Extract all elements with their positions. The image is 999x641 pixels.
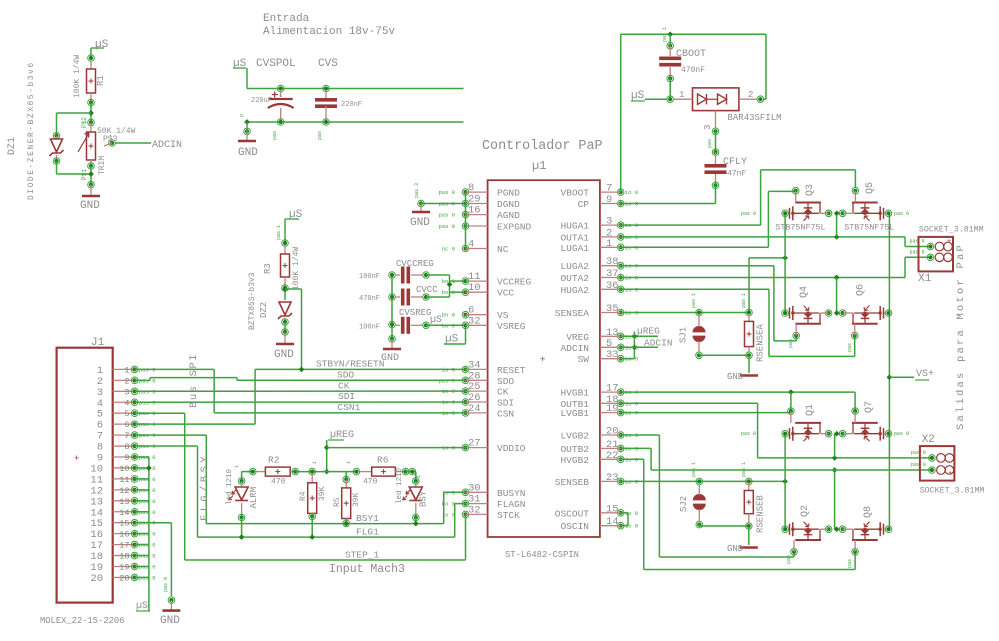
svg-text:TRIM: TRIM xyxy=(98,156,107,175)
svg-text:32: 32 xyxy=(468,315,481,327)
svg-text:RESET: RESET xyxy=(497,365,526,376)
svg-text:pas 0: pas 0 xyxy=(894,211,909,217)
svg-text:pas 1: pas 1 xyxy=(276,225,282,240)
svg-text:20: 20 xyxy=(90,573,103,585)
svg-text:STCK: STCK xyxy=(497,510,520,521)
svg-text:GND: GND xyxy=(238,147,258,159)
svg-text:1: 1 xyxy=(312,461,318,464)
svg-text:µS: µS xyxy=(136,601,148,612)
svg-text:220nF: 220nF xyxy=(341,101,362,109)
svg-text:µS: µS xyxy=(631,90,645,102)
svg-text:SOCKET_3.81MM: SOCKET_3.81MM xyxy=(920,487,985,496)
svg-text:SDI: SDI xyxy=(497,398,514,409)
svg-text:pas 0: pas 0 xyxy=(163,577,169,592)
svg-text:13: 13 xyxy=(119,497,129,507)
svg-text:39K: 39K xyxy=(318,486,327,501)
svg-text:4: 4 xyxy=(124,398,129,408)
svg-text:BSY: BSY xyxy=(419,490,429,507)
svg-text:3: 3 xyxy=(703,125,713,130)
svg-text:100nF: 100nF xyxy=(359,323,380,331)
svg-text:R2: R2 xyxy=(268,455,280,466)
svg-text:pas: pas xyxy=(788,339,794,348)
svg-text:OUTA2: OUTA2 xyxy=(560,273,589,284)
svg-text:17: 17 xyxy=(606,383,619,395)
svg-text:R3: R3 xyxy=(263,263,273,274)
svg-text:X2: X2 xyxy=(922,434,935,446)
svg-text:38: 38 xyxy=(606,256,619,268)
svg-text:Bus SPI: Bus SPI xyxy=(188,353,200,408)
svg-text:BUSYN: BUSYN xyxy=(497,488,526,499)
svg-text:24: 24 xyxy=(468,403,481,415)
svg-text:470: 470 xyxy=(363,478,378,487)
svg-text:23: 23 xyxy=(606,472,619,484)
svg-text:19: 19 xyxy=(606,403,619,415)
svg-text:Q8: Q8 xyxy=(863,506,874,518)
svg-text:RSENSEB: RSENSEB xyxy=(756,495,766,533)
svg-text:µS: µS xyxy=(445,334,459,346)
svg-text:HUGA2: HUGA2 xyxy=(560,285,589,296)
svg-text:100K 1/4W: 100K 1/4W xyxy=(292,247,301,290)
svg-text:37: 37 xyxy=(606,268,619,280)
svg-text:100nF: 100nF xyxy=(359,273,380,281)
svg-text:VCC: VCC xyxy=(497,288,514,299)
svg-text:STEP_1: STEP_1 xyxy=(345,550,380,561)
svg-text:CK: CK xyxy=(497,387,509,398)
svg-text:1: 1 xyxy=(679,90,684,100)
svg-text:30: 30 xyxy=(468,482,481,494)
svg-text:Salidas para Motor PaP: Salidas para Motor PaP xyxy=(955,243,967,430)
svg-text:led 1210: led 1210 xyxy=(226,468,234,505)
svg-text:SDO: SDO xyxy=(497,376,514,387)
svg-text:CSN: CSN xyxy=(497,408,514,419)
svg-text:16: 16 xyxy=(468,205,481,217)
svg-text:8: 8 xyxy=(124,442,129,452)
svg-text:SW: SW xyxy=(578,354,590,365)
svg-text:ADCIN: ADCIN xyxy=(152,140,182,151)
svg-text:FLG/BSY: FLG/BSY xyxy=(199,453,211,521)
svg-text:Q5: Q5 xyxy=(865,182,876,194)
svg-text:3: 3 xyxy=(606,216,612,228)
svg-text:Controlador PaP: Controlador PaP xyxy=(482,139,603,154)
svg-text:pas 0: pas 0 xyxy=(909,239,924,245)
svg-text:SOCKET_3.81MM: SOCKET_3.81MM xyxy=(919,226,984,235)
svg-text:ADCIN: ADCIN xyxy=(560,343,589,354)
svg-text:SDI: SDI xyxy=(338,391,355,402)
svg-text:39K: 39K xyxy=(352,492,361,507)
svg-text:BZTX85S-b3v3: BZTX85S-b3v3 xyxy=(248,272,257,330)
svg-text:20: 20 xyxy=(119,573,129,583)
svg-text:OUTB2: OUTB2 xyxy=(560,444,589,455)
svg-text:OSCIN: OSCIN xyxy=(560,521,589,532)
svg-text:LVGB1: LVGB1 xyxy=(560,408,589,419)
svg-text:pas 0: pas 0 xyxy=(911,462,926,468)
svg-text:18: 18 xyxy=(119,552,129,562)
svg-text:pas: pas xyxy=(847,559,853,568)
svg-text:VDDIO: VDDIO xyxy=(497,443,526,454)
svg-text:pas 1: pas 1 xyxy=(741,462,747,477)
svg-text:bo 0: bo 0 xyxy=(442,322,455,329)
svg-text:Input Mach3: Input Mach3 xyxy=(329,563,405,576)
svg-text:CVCCREG: CVCCREG xyxy=(396,259,434,269)
svg-text:9: 9 xyxy=(606,194,612,206)
svg-text:GND: GND xyxy=(80,200,100,212)
svg-text:P$3: P$3 xyxy=(103,135,118,144)
svg-text:SJ2: SJ2 xyxy=(679,496,689,512)
svg-text:22: 22 xyxy=(606,450,619,462)
svg-text:15: 15 xyxy=(606,503,619,515)
svg-text:470nF: 470nF xyxy=(681,66,705,75)
svg-text:P$1: P$1 xyxy=(81,169,88,180)
svg-text:VS+: VS+ xyxy=(916,369,934,380)
svg-text:+: + xyxy=(540,355,545,365)
svg-text:R4: R4 xyxy=(299,491,308,501)
svg-text:1: 1 xyxy=(606,238,612,250)
svg-text:pas 1: pas 1 xyxy=(691,293,697,308)
svg-text:ADCIN: ADCIN xyxy=(644,338,673,349)
svg-text:NC: NC xyxy=(497,244,509,255)
svg-text:EXPGND: EXPGND xyxy=(497,222,532,233)
svg-text:CVS: CVS xyxy=(318,58,338,70)
svg-text:SJ1: SJ1 xyxy=(679,327,689,343)
svg-text:DZ2: DZ2 xyxy=(259,302,269,318)
svg-text:LVGB2: LVGB2 xyxy=(560,431,589,442)
svg-text:pas 0: pas 0 xyxy=(894,431,909,437)
svg-text:VREG: VREG xyxy=(566,332,589,343)
svg-text:µS: µS xyxy=(430,315,442,326)
svg-text:R1: R1 xyxy=(96,75,106,86)
svg-text:32: 32 xyxy=(468,504,481,516)
svg-text:P$2: P$2 xyxy=(81,117,88,128)
svg-text:Q2: Q2 xyxy=(800,505,811,517)
svg-text:27: 27 xyxy=(468,438,481,450)
svg-text:CSN1: CSN1 xyxy=(338,402,361,413)
svg-text:pas 0: pas 0 xyxy=(438,212,455,219)
svg-text:bn 0: bn 0 xyxy=(442,312,455,319)
svg-text:VBOOT: VBOOT xyxy=(560,188,589,199)
svg-text:ST-L6482-CSPIN: ST-L6482-CSPIN xyxy=(505,550,579,560)
svg-text:CFLY: CFLY xyxy=(723,157,747,168)
svg-text:Q3: Q3 xyxy=(805,184,816,196)
svg-text:FLG1: FLG1 xyxy=(356,527,379,538)
svg-text:GND: GND xyxy=(160,615,180,627)
svg-text:+: + xyxy=(947,238,951,246)
svg-text:Q6: Q6 xyxy=(856,284,867,296)
svg-text:Alimentacion 18v-75v: Alimentacion 18v-75v xyxy=(263,26,395,38)
svg-text:DZ1: DZ1 xyxy=(7,137,18,155)
svg-text:SDO: SDO xyxy=(337,370,354,381)
svg-text:pas 0: pas 0 xyxy=(741,211,756,217)
svg-text:GND: GND xyxy=(274,349,294,361)
svg-text:GND: GND xyxy=(410,217,430,229)
svg-text:OUTA1: OUTA1 xyxy=(560,232,589,243)
svg-text:10: 10 xyxy=(468,282,481,294)
svg-text:1: 1 xyxy=(234,465,240,468)
svg-text:pas 0: pas 0 xyxy=(741,431,756,437)
svg-text:STB75NF75L: STB75NF75L xyxy=(775,223,825,233)
svg-text:X1: X1 xyxy=(918,273,932,285)
svg-text:pas: pas xyxy=(847,343,853,352)
svg-text:BAR43SFILM: BAR43SFILM xyxy=(728,113,782,123)
svg-text:5: 5 xyxy=(124,409,129,419)
svg-text:pas 1: pas 1 xyxy=(741,293,747,308)
svg-text:STBYN/RESETN: STBYN/RESETN xyxy=(316,359,384,370)
svg-text:1: 1 xyxy=(416,475,422,478)
svg-text:17: 17 xyxy=(119,541,129,551)
svg-text:12: 12 xyxy=(119,486,129,496)
svg-text:47nF: 47nF xyxy=(727,170,746,179)
svg-text:SENSEA: SENSEA xyxy=(555,308,590,319)
svg-text:19: 19 xyxy=(119,563,129,573)
svg-text:BSY1: BSY1 xyxy=(356,513,379,524)
svg-text:µS: µS xyxy=(95,39,109,51)
svg-text:FLAGN: FLAGN xyxy=(497,499,526,510)
svg-text:DGND: DGND xyxy=(497,199,520,210)
svg-text:VCCREG: VCCREG xyxy=(497,277,532,288)
svg-text:nc 0: nc 0 xyxy=(442,246,455,253)
svg-text:33: 33 xyxy=(606,349,619,361)
svg-text:Entrada: Entrada xyxy=(263,13,310,25)
svg-text:pas 0: pas 0 xyxy=(911,450,926,456)
svg-text:pas 0: pas 0 xyxy=(438,189,455,196)
svg-text:pas 1: pas 1 xyxy=(662,27,668,42)
svg-text:220uF: 220uF xyxy=(251,97,272,105)
svg-text:+: + xyxy=(74,454,79,464)
svg-text:5: 5 xyxy=(606,338,612,350)
svg-text:4: 4 xyxy=(468,239,474,251)
svg-text:CVSREG: CVSREG xyxy=(399,308,431,318)
svg-text:VSREG: VSREG xyxy=(497,321,526,332)
svg-text:6: 6 xyxy=(124,420,129,430)
svg-text:AGND: AGND xyxy=(497,210,520,221)
svg-text:8: 8 xyxy=(468,182,474,194)
svg-text:GND: GND xyxy=(727,372,743,382)
svg-text:pas 0: pas 0 xyxy=(909,249,924,255)
svg-text:9: 9 xyxy=(124,453,129,463)
svg-text:VS: VS xyxy=(497,310,509,321)
svg-text:1: 1 xyxy=(124,365,129,375)
svg-text:CVCC: CVCC xyxy=(416,285,438,295)
svg-text:+: + xyxy=(948,470,952,478)
svg-text:HVGB2: HVGB2 xyxy=(560,455,589,466)
svg-text:11: 11 xyxy=(119,475,129,485)
svg-text:pas 0: pas 0 xyxy=(438,223,455,230)
svg-text:Q4: Q4 xyxy=(799,286,810,298)
svg-text:bo 0: bo 0 xyxy=(442,289,455,296)
svg-text:ALRM: ALRM xyxy=(249,487,259,509)
svg-text:pas: pas xyxy=(272,131,278,140)
svg-text:STB75NF75L: STB75NF75L xyxy=(844,223,894,233)
svg-text:bo 0: bo 0 xyxy=(442,278,455,285)
svg-text:HVGB1: HVGB1 xyxy=(560,388,589,399)
svg-text:1: 1 xyxy=(346,461,352,464)
svg-text:GND: GND xyxy=(727,544,743,554)
svg-text:16: 16 xyxy=(119,530,129,540)
svg-text:OSCOUT: OSCOUT xyxy=(555,508,590,519)
svg-text:CBOOT: CBOOT xyxy=(676,49,706,60)
svg-text:470: 470 xyxy=(271,478,286,487)
svg-text:CVSPOL: CVSPOL xyxy=(256,58,296,70)
svg-text:p: p xyxy=(239,114,245,117)
svg-text:2: 2 xyxy=(748,90,753,100)
svg-text:7: 7 xyxy=(124,431,129,441)
svg-text:µREG: µREG xyxy=(637,326,660,337)
svg-text:J1: J1 xyxy=(91,337,105,349)
svg-text:led 1210: led 1210 xyxy=(396,467,404,504)
svg-text:µREG: µREG xyxy=(330,430,354,441)
svg-text:LUGA2: LUGA2 xyxy=(560,261,589,272)
svg-text:2: 2 xyxy=(124,376,129,386)
svg-text:PGND: PGND xyxy=(497,188,520,199)
svg-text:15: 15 xyxy=(119,519,129,529)
svg-text:HUGA1: HUGA1 xyxy=(560,221,589,232)
svg-text:7: 7 xyxy=(606,183,612,195)
svg-text:470nF: 470nF xyxy=(359,295,380,303)
svg-text:14: 14 xyxy=(606,516,619,528)
svg-text:RSENSEA: RSENSEA xyxy=(756,324,766,362)
svg-text:io 0: io 0 xyxy=(625,189,638,196)
svg-text:100K 1/4W: 100K 1/4W xyxy=(73,55,82,98)
svg-text:R5: R5 xyxy=(333,497,342,507)
svg-text:R6: R6 xyxy=(377,455,389,466)
svg-text:pas: pas xyxy=(707,139,713,148)
svg-text:pas 3: pas 3 xyxy=(414,183,420,198)
svg-text:3: 3 xyxy=(124,387,129,397)
svg-text:20: 20 xyxy=(606,426,619,438)
svg-text:pas: pas xyxy=(786,555,792,564)
svg-text:pas 0: pas 0 xyxy=(438,201,455,208)
svg-text:10: 10 xyxy=(119,464,129,474)
svg-text:pas: pas xyxy=(317,131,323,140)
svg-text:Q7: Q7 xyxy=(864,401,875,413)
svg-text:SENSEB: SENSEB xyxy=(555,477,590,488)
svg-text:Q1: Q1 xyxy=(805,404,816,416)
svg-text:CP: CP xyxy=(578,199,590,210)
svg-text:CK: CK xyxy=(338,380,350,391)
svg-text:DIODE-ZENER-BZX85-b3v6: DIODE-ZENER-BZX85-b3v6 xyxy=(27,61,36,200)
svg-text:35: 35 xyxy=(606,303,619,315)
svg-text:µ1: µ1 xyxy=(532,159,546,173)
svg-text:LUGA1: LUGA1 xyxy=(560,243,589,254)
svg-text:14: 14 xyxy=(119,508,129,518)
svg-text:MOLEX_22-15-2206: MOLEX_22-15-2206 xyxy=(40,616,124,626)
svg-text:pas 1: pas 1 xyxy=(691,462,697,477)
svg-text:36: 36 xyxy=(606,280,619,292)
